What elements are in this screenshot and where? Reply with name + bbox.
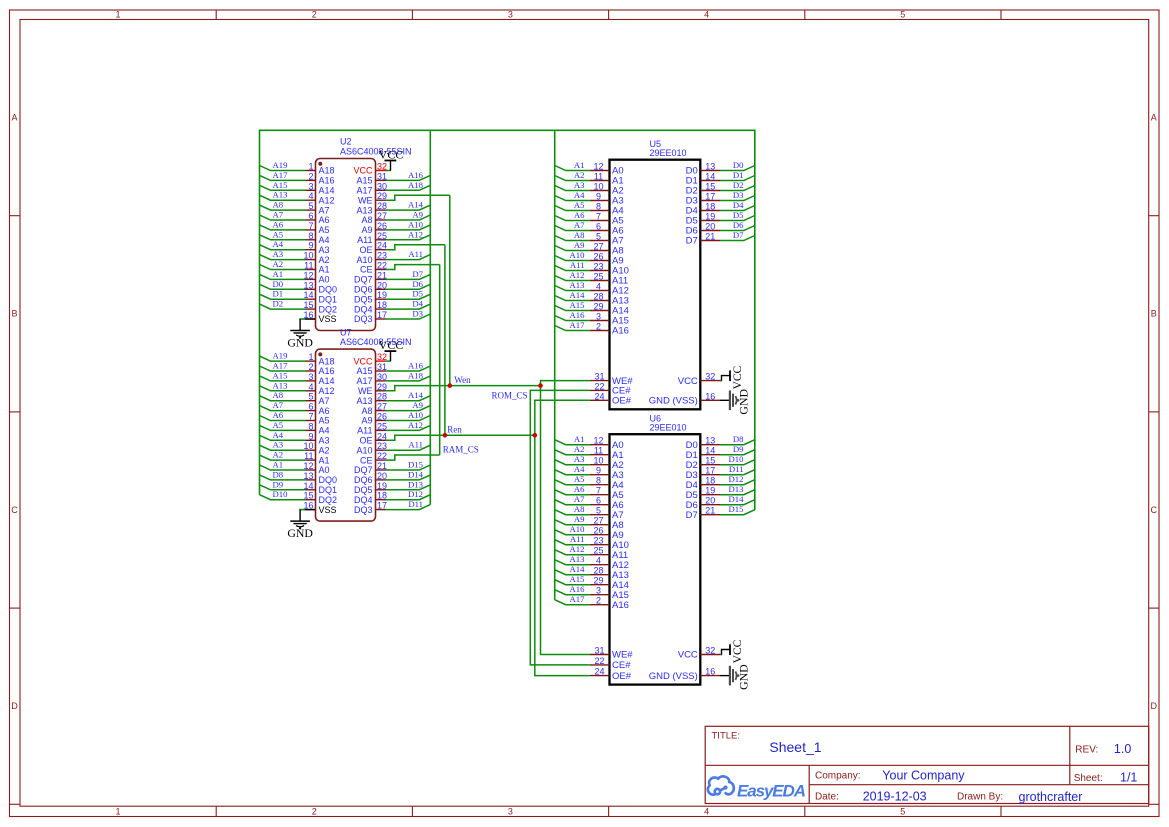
- svg-text:DQ7: DQ7: [354, 275, 373, 285]
- svg-text:OE#: OE#: [612, 396, 632, 407]
- svg-text:A7: A7: [319, 396, 330, 406]
- svg-text:A3: A3: [574, 180, 585, 190]
- svg-text:4: 4: [596, 556, 601, 566]
- svg-text:D7: D7: [686, 236, 698, 247]
- svg-text:D14: D14: [408, 469, 424, 479]
- svg-text:5: 5: [308, 392, 313, 402]
- svg-text:A5: A5: [319, 225, 330, 235]
- svg-text:12: 12: [593, 162, 603, 172]
- svg-text:A16: A16: [570, 584, 586, 594]
- svg-text:14: 14: [303, 290, 313, 300]
- svg-text:7: 7: [596, 212, 601, 222]
- svg-text:A6: A6: [273, 219, 284, 229]
- svg-text:18: 18: [377, 300, 387, 310]
- svg-text:26: 26: [593, 526, 603, 536]
- svg-text:21: 21: [705, 506, 715, 516]
- svg-text:4: 4: [308, 191, 313, 201]
- svg-text:3: 3: [308, 181, 313, 191]
- svg-text:30: 30: [377, 181, 387, 191]
- svg-text:A14: A14: [319, 186, 335, 196]
- svg-text:U2: U2: [340, 137, 352, 147]
- svg-text:24: 24: [377, 431, 387, 441]
- svg-text:23: 23: [593, 262, 603, 272]
- svg-text:OE#: OE#: [612, 671, 632, 682]
- svg-text:A10: A10: [356, 445, 372, 455]
- svg-text:TITLE:: TITLE:: [712, 731, 741, 742]
- svg-text:2: 2: [312, 807, 317, 817]
- svg-text:16: 16: [705, 667, 715, 677]
- svg-text:VCC: VCC: [353, 166, 373, 176]
- svg-text:DQ4: DQ4: [354, 495, 373, 505]
- svg-text:A5: A5: [319, 416, 330, 426]
- svg-text:D13: D13: [729, 484, 744, 494]
- svg-text:17: 17: [705, 192, 715, 202]
- svg-text:17: 17: [377, 501, 387, 511]
- svg-text:A: A: [1151, 113, 1157, 123]
- svg-text:32: 32: [705, 372, 715, 382]
- svg-text:5: 5: [596, 506, 601, 516]
- svg-text:D: D: [1151, 701, 1158, 711]
- svg-text:A2: A2: [574, 444, 585, 454]
- svg-text:D0: D0: [733, 160, 744, 170]
- svg-text:6: 6: [596, 222, 601, 232]
- svg-text:15: 15: [705, 456, 715, 466]
- svg-text:A10: A10: [408, 219, 424, 229]
- svg-text:GND (VSS): GND (VSS): [649, 671, 698, 682]
- svg-text:DQ0: DQ0: [319, 285, 338, 295]
- svg-text:25: 25: [377, 231, 387, 241]
- svg-text:A11: A11: [570, 534, 585, 544]
- svg-text:15: 15: [303, 300, 313, 310]
- svg-text:D6: D6: [733, 220, 744, 230]
- svg-text:DQ1: DQ1: [319, 485, 338, 495]
- svg-text:A2: A2: [273, 450, 284, 460]
- svg-text:D12: D12: [408, 489, 423, 499]
- svg-text:A2: A2: [319, 255, 330, 265]
- svg-text:Wen: Wen: [454, 375, 471, 385]
- svg-text:26: 26: [377, 412, 387, 422]
- svg-text:D3: D3: [733, 190, 744, 200]
- svg-text:A12: A12: [570, 270, 585, 280]
- svg-text:A16: A16: [612, 600, 629, 611]
- svg-text:12: 12: [593, 436, 603, 446]
- svg-text:14: 14: [705, 172, 715, 182]
- svg-text:A18: A18: [319, 356, 335, 366]
- svg-text:VSS: VSS: [319, 505, 337, 515]
- svg-text:24: 24: [594, 391, 604, 401]
- svg-text:13: 13: [303, 471, 313, 481]
- svg-text:16: 16: [705, 391, 715, 401]
- svg-text:7: 7: [596, 486, 601, 496]
- svg-text:Ren: Ren: [447, 425, 462, 435]
- svg-text:27: 27: [593, 516, 603, 526]
- svg-text:A8: A8: [273, 200, 284, 210]
- svg-text:A16: A16: [408, 361, 424, 371]
- svg-text:WE: WE: [358, 386, 373, 396]
- svg-text:25: 25: [377, 421, 387, 431]
- svg-text:VCC: VCC: [678, 376, 698, 387]
- svg-text:A10: A10: [570, 250, 586, 260]
- svg-text:A3: A3: [319, 245, 330, 255]
- svg-text:A4: A4: [319, 426, 330, 436]
- svg-text:A13: A13: [273, 380, 288, 390]
- svg-text:A2: A2: [273, 259, 284, 269]
- svg-text:A7: A7: [273, 400, 284, 410]
- svg-text:B: B: [1151, 309, 1157, 319]
- svg-text:3: 3: [508, 807, 513, 817]
- svg-text:14: 14: [705, 446, 715, 456]
- svg-text:D11: D11: [408, 499, 423, 509]
- svg-text:A16: A16: [319, 366, 335, 376]
- svg-text:VCC: VCC: [732, 365, 744, 389]
- svg-text:A1: A1: [273, 460, 284, 470]
- svg-text:A4: A4: [574, 464, 585, 474]
- svg-text:REV:: REV:: [1075, 744, 1098, 755]
- svg-text:A0: A0: [319, 275, 330, 285]
- svg-text:6: 6: [308, 211, 313, 221]
- svg-text:11: 11: [304, 451, 313, 461]
- svg-text:A8: A8: [574, 230, 585, 240]
- svg-text:23: 23: [593, 536, 603, 546]
- svg-text:A17: A17: [273, 361, 289, 371]
- svg-text:D10: D10: [729, 454, 745, 464]
- svg-text:2: 2: [596, 596, 601, 606]
- svg-text:A11: A11: [408, 440, 423, 450]
- svg-text:ROM_CS: ROM_CS: [491, 390, 527, 400]
- svg-text:A5: A5: [574, 200, 585, 210]
- svg-text:VSS: VSS: [319, 314, 337, 324]
- svg-text:A14: A14: [408, 200, 424, 210]
- svg-text:18: 18: [377, 491, 387, 501]
- svg-text:DQ6: DQ6: [354, 285, 373, 295]
- svg-text:15: 15: [303, 491, 313, 501]
- svg-text:20: 20: [377, 471, 387, 481]
- svg-text:A7: A7: [574, 220, 585, 230]
- svg-text:31: 31: [594, 372, 604, 382]
- svg-text:A1: A1: [574, 160, 585, 170]
- svg-text:1/1: 1/1: [1120, 771, 1137, 785]
- svg-text:A4: A4: [574, 190, 585, 200]
- svg-text:A9: A9: [361, 416, 372, 426]
- svg-text:11: 11: [594, 172, 603, 182]
- svg-text:A: A: [11, 113, 17, 123]
- svg-text:1.0: 1.0: [1114, 742, 1131, 756]
- svg-text:24: 24: [377, 241, 387, 251]
- svg-text:D7: D7: [412, 269, 423, 279]
- svg-text:A6: A6: [319, 215, 330, 225]
- svg-text:A0: A0: [319, 465, 330, 475]
- svg-text:A4: A4: [273, 430, 284, 440]
- svg-text:A16: A16: [612, 326, 629, 337]
- svg-text:A13: A13: [570, 554, 585, 564]
- svg-text:WE#: WE#: [612, 650, 633, 661]
- svg-text:A8: A8: [361, 215, 372, 225]
- svg-text:Sheet_1: Sheet_1: [769, 739, 821, 755]
- svg-text:A13: A13: [356, 396, 372, 406]
- svg-text:4: 4: [308, 382, 313, 392]
- svg-text:A8: A8: [574, 504, 585, 514]
- svg-text:A15: A15: [273, 370, 288, 380]
- svg-text:VCC: VCC: [379, 147, 404, 161]
- svg-text:D13: D13: [408, 479, 423, 489]
- svg-text:1: 1: [308, 162, 313, 172]
- svg-text:D2: D2: [733, 180, 744, 190]
- svg-text:DQ3: DQ3: [354, 505, 373, 515]
- svg-text:17: 17: [705, 466, 715, 476]
- svg-text:25: 25: [593, 546, 603, 556]
- svg-text:19: 19: [705, 212, 715, 222]
- svg-text:D9: D9: [273, 479, 284, 489]
- svg-text:D5: D5: [733, 210, 744, 220]
- svg-text:C: C: [11, 505, 18, 515]
- svg-text:D1: D1: [733, 170, 744, 180]
- svg-text:15: 15: [705, 182, 715, 192]
- svg-text:22: 22: [377, 451, 387, 461]
- svg-text:A12: A12: [319, 386, 335, 396]
- svg-text:D11: D11: [729, 464, 744, 474]
- svg-text:28: 28: [593, 566, 603, 576]
- svg-text:OE: OE: [359, 436, 372, 446]
- svg-text:DQ4: DQ4: [354, 304, 373, 314]
- svg-text:GND: GND: [287, 526, 313, 540]
- svg-text:A12: A12: [408, 229, 423, 239]
- svg-text:A9: A9: [574, 240, 585, 250]
- svg-text:A18: A18: [319, 166, 335, 176]
- svg-text:A12: A12: [408, 420, 423, 430]
- svg-text:1: 1: [308, 352, 313, 362]
- svg-text:A17: A17: [356, 376, 372, 386]
- svg-text:A15: A15: [356, 176, 372, 186]
- svg-text:A5: A5: [273, 229, 284, 239]
- svg-text:18: 18: [705, 202, 715, 212]
- svg-text:1: 1: [115, 10, 120, 20]
- svg-text:21: 21: [377, 461, 387, 471]
- svg-text:DQ2: DQ2: [319, 495, 338, 505]
- svg-text:A1: A1: [574, 434, 585, 444]
- svg-text:A1: A1: [273, 269, 284, 279]
- svg-text:13: 13: [705, 162, 715, 172]
- svg-text:31: 31: [377, 362, 387, 372]
- svg-text:D9: D9: [733, 444, 744, 454]
- svg-text:27: 27: [593, 242, 603, 252]
- svg-text:26: 26: [593, 252, 603, 262]
- svg-text:22: 22: [594, 381, 604, 391]
- svg-text:22: 22: [594, 656, 604, 666]
- svg-text:13: 13: [705, 436, 715, 446]
- svg-text:A12: A12: [570, 544, 585, 554]
- svg-text:23: 23: [377, 251, 387, 261]
- svg-text:A11: A11: [357, 235, 372, 245]
- svg-text:A11: A11: [357, 426, 372, 436]
- svg-text:21: 21: [377, 270, 387, 280]
- svg-text:GND: GND: [287, 335, 313, 349]
- svg-text:A8: A8: [273, 390, 284, 400]
- svg-text:U7: U7: [340, 327, 352, 337]
- svg-text:10: 10: [593, 456, 603, 466]
- svg-text:10: 10: [593, 182, 603, 192]
- svg-text:Date:: Date:: [815, 791, 839, 802]
- svg-text:19: 19: [377, 290, 387, 300]
- svg-text:26: 26: [377, 221, 387, 231]
- svg-text:20: 20: [705, 222, 715, 232]
- svg-text:D15: D15: [408, 460, 423, 470]
- svg-text:CE#: CE#: [612, 660, 631, 671]
- svg-text:5: 5: [900, 807, 905, 817]
- svg-text:D: D: [11, 701, 18, 711]
- svg-text:RAM_CS: RAM_CS: [443, 444, 479, 454]
- svg-text:A15: A15: [570, 300, 585, 310]
- svg-text:3: 3: [596, 312, 601, 322]
- svg-text:5: 5: [308, 201, 313, 211]
- svg-text:29: 29: [377, 382, 387, 392]
- svg-text:A8: A8: [361, 406, 372, 416]
- svg-text:5: 5: [596, 232, 601, 242]
- svg-text:24: 24: [594, 667, 604, 677]
- svg-text:DQ1: DQ1: [319, 294, 338, 304]
- svg-text:DQ2: DQ2: [319, 304, 338, 314]
- svg-text:VCC: VCC: [353, 356, 373, 366]
- svg-text:A15: A15: [273, 180, 288, 190]
- svg-text:A9: A9: [361, 225, 372, 235]
- svg-text:14: 14: [303, 481, 313, 491]
- svg-text:19: 19: [377, 481, 387, 491]
- svg-text:VCC: VCC: [732, 639, 744, 663]
- svg-text:31: 31: [377, 171, 387, 181]
- svg-text:A14: A14: [408, 390, 424, 400]
- svg-text:DQ0: DQ0: [319, 475, 338, 485]
- svg-text:12: 12: [303, 270, 313, 280]
- svg-text:8: 8: [308, 231, 313, 241]
- svg-text:A15: A15: [570, 574, 585, 584]
- svg-text:27: 27: [377, 211, 387, 221]
- svg-text:29EE010: 29EE010: [650, 148, 687, 158]
- svg-text:D8: D8: [733, 434, 744, 444]
- svg-text:D15: D15: [729, 504, 744, 514]
- svg-text:23: 23: [377, 441, 387, 451]
- svg-text:A10: A10: [570, 524, 586, 534]
- svg-text:VCC: VCC: [379, 338, 404, 352]
- svg-text:D0: D0: [273, 279, 284, 289]
- svg-text:31: 31: [594, 646, 604, 656]
- svg-text:A16: A16: [319, 176, 335, 186]
- svg-text:DQ6: DQ6: [354, 475, 373, 485]
- svg-text:A7: A7: [319, 205, 330, 215]
- svg-text:9: 9: [308, 241, 313, 251]
- svg-text:D14: D14: [729, 494, 745, 504]
- svg-text:A5: A5: [273, 420, 284, 430]
- svg-text:A7: A7: [574, 494, 585, 504]
- svg-text:7: 7: [308, 412, 313, 422]
- svg-text:A12: A12: [319, 195, 335, 205]
- svg-text:D4: D4: [412, 299, 423, 309]
- svg-text:3: 3: [596, 586, 601, 596]
- svg-text:DQ5: DQ5: [354, 294, 373, 304]
- svg-text:D7: D7: [686, 510, 698, 521]
- svg-text:OE: OE: [359, 245, 372, 255]
- svg-text:D1: D1: [273, 289, 284, 299]
- svg-text:A15: A15: [356, 366, 372, 376]
- svg-text:1: 1: [115, 807, 120, 817]
- svg-text:20: 20: [377, 280, 387, 290]
- svg-text:D6: D6: [412, 279, 423, 289]
- svg-text:4: 4: [596, 282, 601, 292]
- svg-text:A3: A3: [273, 440, 284, 450]
- svg-text:3: 3: [308, 372, 313, 382]
- svg-text:29EE010: 29EE010: [650, 423, 687, 433]
- svg-text:A9: A9: [412, 400, 423, 410]
- svg-text:29: 29: [593, 302, 603, 312]
- svg-text:A14: A14: [570, 290, 586, 300]
- svg-text:29: 29: [593, 576, 603, 586]
- svg-text:A1: A1: [319, 455, 330, 465]
- svg-text:GND (VSS): GND (VSS): [649, 396, 698, 407]
- svg-text:A17: A17: [570, 320, 586, 330]
- svg-text:12: 12: [303, 461, 313, 471]
- svg-text:A17: A17: [356, 186, 372, 196]
- svg-text:A5: A5: [574, 474, 585, 484]
- svg-text:A4: A4: [273, 239, 284, 249]
- svg-text:2019-12-03: 2019-12-03: [863, 790, 927, 804]
- svg-text:A6: A6: [574, 210, 585, 220]
- svg-text:4: 4: [704, 10, 709, 20]
- svg-text:5: 5: [900, 10, 905, 20]
- svg-text:30: 30: [377, 372, 387, 382]
- svg-text:2: 2: [312, 10, 317, 20]
- svg-text:25: 25: [593, 272, 603, 282]
- svg-text:A6: A6: [319, 406, 330, 416]
- svg-text:Sheet:: Sheet:: [1074, 773, 1103, 784]
- svg-text:A11: A11: [570, 260, 585, 270]
- svg-text:D5: D5: [412, 289, 423, 299]
- svg-text:Your Company: Your Company: [882, 769, 965, 783]
- svg-text:A19: A19: [273, 351, 288, 361]
- svg-text:A6: A6: [273, 410, 284, 420]
- svg-text:13: 13: [303, 280, 313, 290]
- svg-text:9: 9: [596, 192, 601, 202]
- svg-text:6: 6: [596, 496, 601, 506]
- svg-text:D2: D2: [273, 299, 284, 309]
- svg-text:10: 10: [303, 441, 313, 451]
- svg-text:D12: D12: [729, 474, 744, 484]
- svg-text:4: 4: [704, 807, 709, 817]
- svg-text:A13: A13: [356, 205, 372, 215]
- svg-text:WE: WE: [358, 195, 373, 205]
- svg-text:28: 28: [593, 292, 603, 302]
- svg-text:DQ3: DQ3: [354, 314, 373, 324]
- svg-text:A17: A17: [570, 594, 586, 604]
- svg-text:A3: A3: [574, 454, 585, 464]
- svg-text:grothcrafter: grothcrafter: [1019, 790, 1083, 804]
- svg-text:11: 11: [594, 446, 603, 456]
- svg-text:A9: A9: [412, 210, 423, 220]
- svg-text:A17: A17: [273, 170, 289, 180]
- svg-text:A13: A13: [570, 280, 585, 290]
- svg-text:A13: A13: [273, 190, 288, 200]
- svg-text:Company:: Company:: [815, 770, 861, 781]
- svg-text:A9: A9: [574, 514, 585, 524]
- svg-text:9: 9: [308, 431, 313, 441]
- svg-text:9: 9: [596, 466, 601, 476]
- svg-text:A4: A4: [319, 235, 330, 245]
- svg-text:B: B: [11, 309, 17, 319]
- svg-text:EasyEDA: EasyEDA: [737, 781, 806, 800]
- svg-text:CE: CE: [360, 455, 373, 465]
- svg-text:A3: A3: [319, 436, 330, 446]
- svg-text:A19: A19: [273, 160, 288, 170]
- svg-text:A2: A2: [319, 445, 330, 455]
- svg-text:A3: A3: [273, 249, 284, 259]
- svg-text:A7: A7: [273, 210, 284, 220]
